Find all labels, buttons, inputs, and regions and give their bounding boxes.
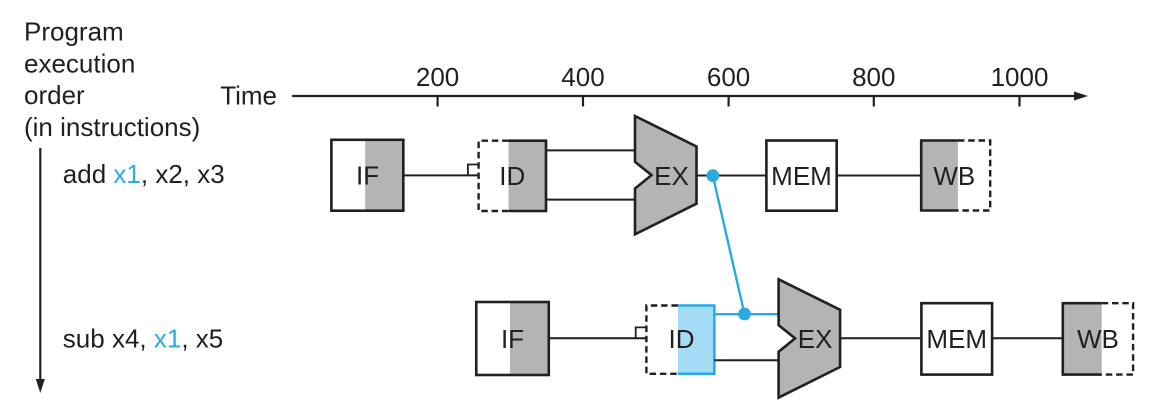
svg-text:Time: Time xyxy=(220,81,277,111)
wires ID-EX (row 1) xyxy=(546,149,636,151)
svg-text:sub x4, x1, x5: sub x4, x1, x5 xyxy=(63,324,223,354)
program-order arrow xyxy=(39,148,41,380)
stage IF (row 1) xyxy=(331,140,403,211)
svg-text:add x1, x2, x3: add x1, x2, x3 xyxy=(63,159,225,189)
svg-text:(in instructions): (in instructions) xyxy=(24,112,200,142)
label: Program execution order (in instructions) xyxy=(24,17,200,142)
svg-text:IF: IF xyxy=(501,324,524,354)
wire MEM-WB (row 2) xyxy=(992,337,1063,339)
stage WB (row 1) xyxy=(921,141,990,211)
svg-text:MEM: MEM xyxy=(771,161,832,191)
wire IF-ID (row 1) xyxy=(403,174,478,176)
axis ticks xyxy=(438,96,1020,107)
forwarding wire ID-EX (row 2, top) xyxy=(714,313,778,315)
svg-text:order: order xyxy=(24,80,85,110)
stage MEM (row 2) xyxy=(921,303,992,374)
svg-text:WB: WB xyxy=(1077,324,1119,354)
svg-text:800: 800 xyxy=(852,62,895,92)
svg-text:execution: execution xyxy=(24,48,135,78)
svg-text:EX: EX xyxy=(798,324,833,354)
stage ID (row 2, hazard highlighted) xyxy=(646,306,714,374)
stage ID (row 1) xyxy=(479,141,546,211)
time axis xyxy=(292,95,1076,97)
svg-text:200: 200 xyxy=(416,62,459,92)
axis labels xyxy=(416,62,1049,92)
svg-text:Program: Program xyxy=(24,17,124,47)
stage IF (row 2) xyxy=(476,302,549,375)
wire MEM-WB (row 1) xyxy=(837,175,922,177)
svg-text:IF: IF xyxy=(356,161,379,191)
svg-text:EX: EX xyxy=(654,161,689,191)
svg-text:600: 600 xyxy=(707,62,750,92)
ALU EX (row 2) xyxy=(779,279,841,397)
half-cycle stub (row 1) xyxy=(468,165,479,176)
svg-text:ID: ID xyxy=(499,161,525,191)
ALU EX (row 1) xyxy=(635,116,697,234)
stage WB (row 2) xyxy=(1063,303,1133,374)
svg-text:MEM: MEM xyxy=(926,324,987,354)
svg-text:400: 400 xyxy=(561,62,604,92)
svg-text:WB: WB xyxy=(933,161,975,191)
forwarding wire (diagonal) xyxy=(713,176,745,315)
svg-text:ID: ID xyxy=(669,324,695,354)
wire EX-MEM (row 2) xyxy=(840,337,921,339)
wire ID-EX (row 2, bottom) xyxy=(714,359,779,361)
wire IF-ID (row 2) xyxy=(549,337,647,339)
stage MEM (row 1) xyxy=(766,141,836,211)
half-cycle stub (row 2) xyxy=(636,327,647,338)
svg-text:1000: 1000 xyxy=(991,62,1049,92)
forwarding node (row 2) xyxy=(738,308,751,321)
forwarding node (row 1) xyxy=(706,169,719,182)
wire EX-MEM (row 1) xyxy=(697,175,767,177)
